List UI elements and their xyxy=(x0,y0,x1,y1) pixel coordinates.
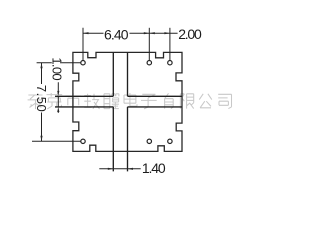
left hole extension line upper xyxy=(37,62,81,64)
dimension 6.40 xyxy=(83,32,149,34)
top dimension extension lines xyxy=(83,28,170,61)
dimension 1.40 xyxy=(99,168,140,170)
svg-text:1.00: 1.00 xyxy=(50,57,65,80)
svg-text:6.40: 6.40 xyxy=(104,26,129,42)
svg-text:2.00: 2.00 xyxy=(178,26,202,42)
svg-text:7.50: 7.50 xyxy=(34,85,49,112)
watermark char 子 xyxy=(141,94,157,109)
pin holes xyxy=(81,61,172,144)
watermark char 限 xyxy=(180,94,193,109)
watermark 东莞市玖耀电子有限公司 (simplified grey stroke glyphs) xyxy=(28,93,232,109)
watermark char 市 xyxy=(65,93,81,109)
watermark char 电 xyxy=(124,93,137,106)
watermark char 有 xyxy=(160,93,176,108)
watermark char 玖 xyxy=(84,94,99,109)
watermark char 东 xyxy=(28,95,44,109)
svg-text:1.40: 1.40 xyxy=(142,160,166,176)
center slot vertical line left xyxy=(55,52,182,171)
center slot horizontal line upper xyxy=(55,95,182,97)
watermark char 公 xyxy=(199,94,212,108)
bobbin body outline xyxy=(73,52,182,151)
dimension 2.00 xyxy=(149,32,177,34)
watermark char 耀 xyxy=(104,94,119,109)
watermark char 莞 xyxy=(47,93,63,109)
center slot vertical line right xyxy=(127,52,129,171)
center slot horizontal line lower xyxy=(55,106,182,108)
left hole extension line lower xyxy=(32,140,81,142)
dimension 1.00 leader and arrows (measures slot height) xyxy=(57,82,59,113)
dimension 7.50 xyxy=(40,63,42,142)
watermark char 司 xyxy=(218,94,231,108)
